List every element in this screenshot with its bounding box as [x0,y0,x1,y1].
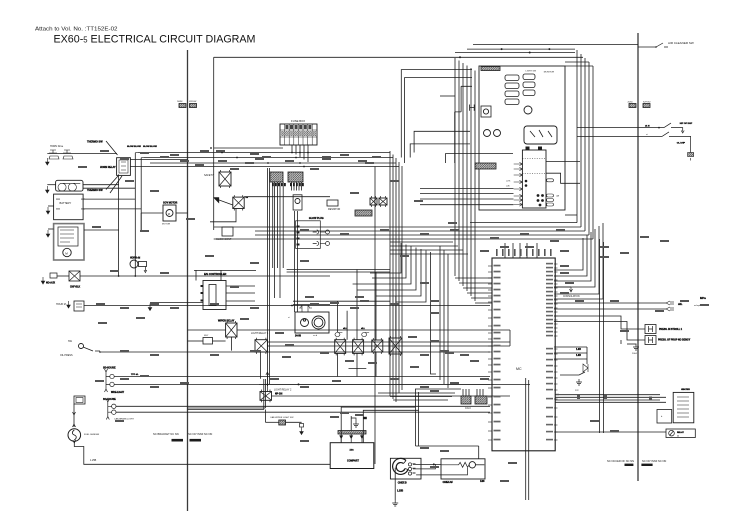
wire label 110 [420,386,429,388]
wire label 19 [282,356,291,358]
small unit right [657,410,672,424]
wire label 28 [96,303,105,305]
svg-text:1.6B: 1.6B [576,349,581,351]
fuse above relay2 [362,333,369,337]
wire MC top pin 1 [504,243,506,258]
svg-text:WIPER RELAY: WIPER RELAY [218,320,235,323]
light sw button 3 [505,91,519,97]
wire MC r353 [554,352,587,354]
arrow harness L1 [172,439,184,442]
gauge right inner [314,318,323,327]
switch right B [662,132,691,153]
wire label 39 [420,282,429,284]
pin MC left 3 [488,277,492,279]
pin MC left 11 [488,332,492,334]
wire long drop a [267,168,269,386]
wire label 21 [98,322,107,324]
wire hour meter [84,305,490,307]
wire label 111 [450,382,459,384]
connector ob left [629,104,636,108]
wire label 63 [448,222,457,224]
ground battery [46,207,50,214]
pin MC top label 6 [526,249,528,256]
wire label 48 [620,330,629,332]
wire conn drop 5 [301,182,303,191]
bus line 4 [154,166,399,168]
wire light2 long [259,383,530,385]
svg-text:SAFETY: SAFETY [204,174,214,177]
wire mc feed 4 [390,253,468,255]
wire label 104 [440,350,449,352]
pin MC left 20 [488,396,492,398]
pin MC left 13 [488,345,492,347]
wire cab pair b [188,407,266,409]
wire fuel pump drop [73,404,75,427]
wire label 130 [680,300,689,302]
wire relay mid [349,368,367,370]
wire label 124 [270,378,279,380]
horn relay inner [119,160,128,173]
connector pair L [179,104,186,108]
relay R2 feed diag [214,198,233,205]
wire label 119 [420,447,429,449]
wire CN feed [415,388,461,390]
wire mid bundle 2 [274,182,276,298]
wire label 33 [230,286,239,288]
fuse box [280,124,317,145]
wire thermo diag [106,141,118,155]
relay bank 3 [372,338,383,354]
arrow consolation [570,287,573,292]
svg-text:dLL: dLL [361,328,366,330]
wire mid bundle 1 [272,182,274,268]
junction fusible a [118,275,120,277]
junction fuse bus 3 [299,162,301,164]
pin MC right 8 [554,291,558,293]
svg-text:PRESS. OF PROP NO DENGY: PRESS. OF PROP NO DENGY [658,340,691,342]
loop v4 [398,162,400,393]
relay bank 2 [353,338,364,356]
wire label 81 [262,156,271,158]
wire MC right bundle 3 [554,232,591,281]
wire x527a [525,378,527,500]
fuse above relay1 [335,333,342,337]
pin MC top label 4 [514,249,516,256]
wire cab drop [264,410,266,423]
wire relay1 up [336,301,338,332]
pin MC left 15 [488,358,492,360]
svg-text:HORN Dcse: HORN Dcse [50,145,64,148]
wire label 102 [390,303,399,305]
wire label 105 [460,354,469,356]
gauge cluster box [295,312,329,333]
wire radio feed [416,445,479,447]
pin MC right 20 [554,348,558,350]
right loop v2 [580,54,582,227]
pin MC right 25 [554,377,558,379]
starter coil [60,230,74,242]
connector pair R [190,104,197,108]
wire mc bundle turn 3 [463,287,492,289]
wire battery left [48,205,54,207]
wire wiper box left [188,340,204,342]
wire mid long 3 [255,234,589,236]
loop up D [410,144,470,158]
svg-text:Attach to Vol. No. :TT152E-02: Attach to Vol. No. :TT152E-02 [35,27,118,33]
wire label 6 [310,168,319,170]
wire governor drop [140,213,142,230]
wire label 96 [150,303,159,305]
relay heater B [379,196,387,207]
pressure switch circle [79,344,84,349]
wire MC right bundle 5 [554,226,599,294]
governor motor box [163,205,176,221]
svg-text:dd: dd [677,436,679,438]
pin MC right 31 [554,424,558,426]
wire cab right [286,421,302,423]
pin MC left 24 [488,430,492,432]
pin MC right 12 [554,307,558,309]
junction sw A [658,127,660,129]
wire label 14 [600,246,609,248]
wire label 92 [490,237,499,239]
pin MC left 2 [488,271,492,273]
stair L4 [357,248,416,291]
arrow fuel out [73,440,76,443]
right loop v1 [576,50,578,223]
key switch box [524,126,557,144]
wire label 70 [430,390,439,392]
wire sol gnd h [627,343,637,345]
wire label 101 [350,307,359,309]
wire relay top bus a [287,269,390,271]
fuse box grid [280,124,317,145]
wire MC top pin 3 [519,243,521,258]
wire EG pin 1 [226,285,255,287]
svg-text:FUEL SENDER: FUEL SENDER [84,434,100,436]
speaker box [441,459,485,479]
stair L5 [376,249,421,296]
junction light2 [298,383,300,385]
connector CN mc2 [475,396,487,404]
junction thermo [299,152,301,154]
loop up B [405,78,473,163]
wire fusible long [80,275,330,277]
wire mid long 4 [214,238,593,240]
monitor panel box [479,66,565,210]
wire label 86 [372,156,381,158]
pin MC top label 7 [532,249,534,256]
wire label 127 [620,252,629,254]
wire label 90 [420,233,429,235]
glow plug circle [295,199,300,204]
pin MC right 9 [554,295,558,297]
starter inner box [58,227,78,246]
wire label 118 [560,292,569,294]
wire label 56 [508,462,517,464]
relay bank 4 [389,336,402,356]
horn unit [130,260,138,268]
pin MC right 3 [554,271,558,273]
wire label 1 [140,152,149,154]
wire relay top bus b [287,271,390,273]
wire label 41 [445,352,454,354]
junction bus b [221,152,223,154]
hour meter inner [76,304,82,307]
wire top bus 1 [473,44,638,46]
wire starter out [84,229,119,231]
wire label 77 [170,154,179,156]
wire label 107 [210,354,219,356]
svg-text:MONITOR: MONITOR [544,71,555,73]
pin MC top label 5 [520,249,522,256]
wire label 4 [250,153,259,155]
svg-text:d1 N: d1 N [645,125,650,127]
wire label 112 [480,378,489,380]
wire cab pair a [188,409,264,411]
wire monitor feed 1 [454,58,456,276]
wire right long b [603,242,605,433]
pin MC right 4 [554,275,558,277]
wire label 87 [300,229,309,231]
pin MC top label 10 [550,249,552,256]
arrow fuel feed [73,412,76,427]
svg-text:RESISTOR: RESISTOR [328,208,340,211]
svg-text:RELAY: RELAY [677,431,684,434]
wire panel right 1 [546,160,580,162]
wire mc bundle turn 2 [459,282,492,284]
svg-text:KEY: KEY [204,335,209,337]
stair L2 [372,245,406,279]
svg-text:NO-AUX: NO-AUX [46,282,56,285]
junction top d [459,56,461,58]
junction fuse bus 5 [307,152,309,154]
svg-text:TPF dL: TPF dL [131,374,139,376]
wire label 76 [78,166,87,168]
pin MC left 10 [488,325,492,327]
gauge small box [481,106,491,117]
wire label 46 [575,300,584,302]
wire comp feed A [341,407,415,443]
radio horn icon [393,458,408,474]
wire mid long 2 [255,230,585,232]
ground horn [46,158,50,165]
svg-text:SLOW BLOW: SLOW BLOW [127,146,142,148]
svg-text:OIL PRESS: OIL PRESS [60,354,73,357]
loop bottom h2 [390,396,452,398]
fuse link box [56,180,83,191]
stair L1 [370,243,401,273]
junction top c [548,48,550,50]
wire label 93 [520,233,529,235]
wire label 75 [120,158,129,160]
connector compartment [338,431,366,435]
relay wiper [226,321,237,339]
wire conn drop 4 [298,182,300,191]
wire below monitor 3 [420,198,514,200]
wire MC right bundle 4 [554,229,595,287]
wire label 7 [350,192,359,194]
speaker circle [469,462,475,468]
pin MC right 6 [554,283,558,285]
wire label 113 [120,378,129,380]
wire label 80 [245,162,254,164]
switch air cleaner [656,43,668,47]
junction radio [433,463,435,465]
pressure switch lever [83,347,100,351]
wire mid long 1 [214,226,581,228]
wire label 52 [330,416,339,418]
stair L7 [431,252,437,374]
svg-text:CN-3: CN-3 [465,407,471,410]
wire horn [47,153,117,155]
pin MC right 18 [554,331,558,333]
connector monitor top strip [481,67,500,71]
gauge right [312,316,325,329]
wire label 109 [390,378,399,380]
wire mc feed 1 [390,241,453,243]
fuse box cells [285,125,311,129]
junction bus a [210,147,212,149]
wire riser x141 [140,158,142,230]
svg-text:HORN RELAY: HORN RELAY [100,166,116,169]
right loop v5 [592,66,594,239]
wire mc feed 2 [390,245,458,247]
pin MC right 19 [554,335,558,337]
wire label 49 [655,310,664,312]
pin MC right 1 [554,263,558,265]
wire relay2 up [346,311,348,340]
wire mc feed 3 [390,249,463,251]
glow plug symbol 2 [313,242,319,246]
pin MC left 22 [488,412,492,414]
arrow harness R1 [625,464,634,466]
wire thermo diag3 [110,176,122,193]
wire EG top drop2 [195,270,197,280]
wire mid long 0 [470,222,577,224]
node pressure [99,351,101,353]
wire monitor feed 2 [458,61,460,282]
pin MC right 5 [554,279,558,281]
wire label 30 [140,375,149,377]
wire label 126 [600,256,609,258]
wire label 31 [95,380,104,382]
wire label 37 [330,302,339,304]
loop up A [401,70,472,158]
wire CN mc pin 1 [462,389,464,396]
wire fuse drop 4 [303,145,305,160]
pin MC left 12 [488,338,492,340]
wire label 65 [285,344,294,346]
svg-text:20/50: 20/50 [628,101,634,103]
svg-text:LIGHT SW: LIGHT SW [526,71,537,73]
wire wiper down [231,337,233,351]
wire label 84 [340,154,349,156]
EG left pins [201,285,204,302]
pin MC top label 9 [544,249,546,256]
svg-text:NC NCCER OF NC NN: NC NCCER OF NC NN [607,459,634,463]
wire label 100 [310,303,319,305]
wire MC top pin 4 [526,243,528,258]
wire MC right bundle 2 [554,235,587,276]
wire label 94 [556,229,565,231]
pin MC right 21 [554,353,558,355]
wire CN mc pin 6 [482,389,484,396]
wire MC right bundle 6 [554,223,603,299]
svg-text:20MW: 20MW [177,101,183,103]
wire horn relay out1 [130,159,187,161]
wire mc bundle turn 4 [467,292,492,294]
fuse x inner [69,271,80,281]
svg-text:1.25B: 1.25B [397,491,403,493]
horn relay [117,158,131,176]
fuse x box [69,271,80,281]
wire label 23 [125,180,134,182]
wire CN mc pin 3 [468,389,470,396]
wire MC resistor bracket [586,347,588,364]
wire sol 2 feed [554,322,645,341]
svg-text:xxTS: xxTS [506,181,511,183]
svg-text:2004: 2004 [632,353,638,355]
junction bus c [236,157,238,159]
MC controller box [492,258,555,451]
resistor unit right [673,392,694,422]
pin MC right 30 [554,416,558,418]
svg-text:MOTOR: MOTOR [162,224,171,226]
wire top bus 2 [455,52,575,54]
wire zener drop [560,372,585,375]
junction preheat [267,384,269,386]
fusible link pair [50,273,57,278]
wire label 51 [610,430,619,432]
bus line 1 [138,152,390,154]
junction bus d [267,162,269,164]
svg-text:CAB WIPER LIGHT SW: CAB WIPER LIGHT SW [270,416,294,419]
pin MC right 29 [554,407,558,409]
connector ob right [643,104,650,108]
battery pins [56,199,85,209]
wire monitor loop bottom [565,214,577,216]
wire panel right 2 [546,173,580,183]
key switch slots [530,130,552,137]
stair L3 [353,246,411,284]
wire label 106 [150,354,159,356]
wire label 62 [414,200,423,202]
wire label 61 [390,180,399,182]
junction fuse bus 1 [291,152,293,154]
wire EG top drop [220,270,222,280]
wire label 36 [305,296,314,298]
pin MC left 6 [488,295,492,297]
pin MC left 25 [488,439,492,441]
speaker inner wire [416,468,467,475]
loop up E [446,154,513,164]
radio box [390,458,421,479]
wire thermo diag2 [106,176,118,190]
connector monitor CN [475,163,496,169]
svg-text:SD-HOUSE: SD-HOUSE [103,367,116,370]
panel controller right pins [547,179,554,206]
pin MC left 14 [488,351,492,353]
loop v6 [374,167,376,465]
svg-text:HOUR M.: HOUR M. [56,303,67,306]
pin MC top label 2 [502,249,504,256]
switch unit A [110,374,114,378]
wire label 29 [120,350,129,352]
svg-text:GLOW CONT: GLOW CONT [216,238,232,241]
pin MC right 27 [554,389,558,391]
wire light1 down [260,352,262,379]
